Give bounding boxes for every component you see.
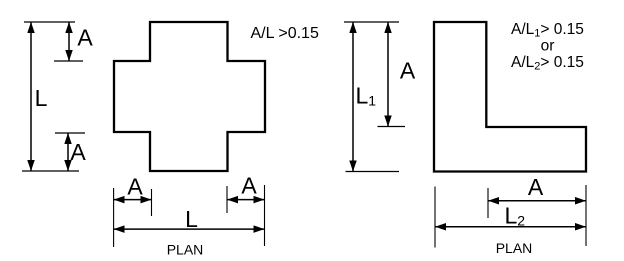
svg-text:A: A: [528, 174, 544, 200]
dimension arrow A horizontal right (left figure): [227, 199, 265, 201]
dimension arrow A vertical bottom (left figure): [67, 133, 69, 171]
dimension arrow L horizontal (left figure): [114, 228, 265, 230]
svg-text:A/L2> 0.15: A/L2> 0.15: [511, 54, 584, 73]
dimension arrow L1 vertical (right figure): [352, 22, 354, 172]
dimension arrow L vertical (left figure): [30, 22, 32, 171]
extension line bottom (left figure, y=171): [22, 170, 79, 172]
svg-text:L: L: [185, 206, 198, 232]
svg-text:L1: L1: [356, 83, 377, 109]
dimension arrow A horizontal left (left figure): [114, 199, 152, 201]
extension line at x=488: [487, 188, 489, 218]
svg-text:A: A: [400, 58, 416, 84]
dimension arrow A horizontal (right figure): [488, 200, 586, 202]
svg-text:A/L >0.15: A/L >0.15: [251, 25, 319, 42]
dimension arrow A vertical top (left figure): [68, 22, 70, 61]
cross-shaped plan outline: [114, 22, 265, 171]
extension line at x=227: [226, 186, 228, 213]
svg-text:A: A: [77, 25, 93, 51]
svg-text:L2: L2: [505, 203, 526, 229]
extension line bottom-right vertical (x=586): [585, 185, 587, 246]
extension line mid-upper (left figure, y=61): [54, 60, 83, 62]
svg-text:PLAN: PLAN: [496, 240, 533, 256]
extension line top (right figure, y=22): [344, 21, 399, 23]
extension line at x=151.5: [151, 189, 153, 216]
svg-text:PLAN: PLAN: [167, 242, 204, 258]
extension line mid-lower (left figure, y=133): [55, 132, 85, 134]
dimension arrow L2 horizontal (right figure): [435, 226, 586, 228]
svg-text:A: A: [70, 139, 86, 165]
extension line bottom-right vertical (x=264.5): [264, 185, 266, 246]
dimension arrow A vertical (right figure): [387, 22, 389, 127]
svg-text:A: A: [241, 173, 257, 199]
extension line bottom-left vertical (x=435): [434, 187, 436, 248]
extension line top (left figure, y=22): [24, 21, 75, 23]
svg-text:L: L: [35, 85, 48, 111]
extension line bottom (right figure, y=171.5): [346, 171, 400, 173]
extension line mid (right figure, y=126.5): [378, 126, 406, 128]
extension line bottom-left vertical (x=113.6): [113, 188, 115, 247]
L-shaped plan outline: [434, 22, 586, 172]
svg-text:or: or: [541, 38, 555, 55]
svg-text:A: A: [127, 174, 143, 200]
